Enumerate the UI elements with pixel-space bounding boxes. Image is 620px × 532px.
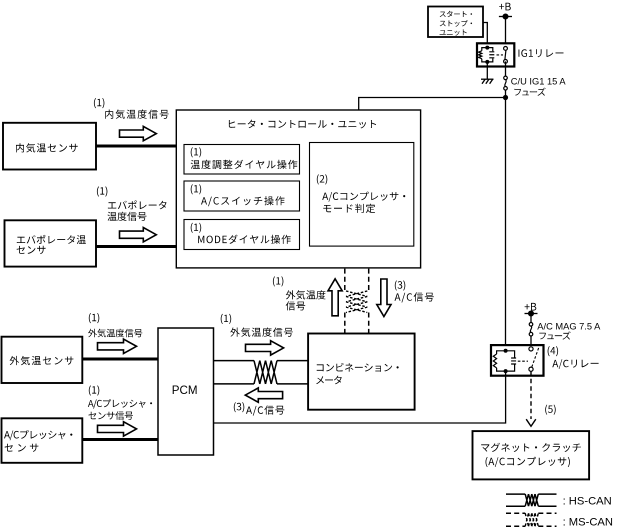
junction fused IG1 supply — [503, 95, 508, 100]
label 外気温度信号 (MS-CAN) — [286, 290, 326, 310]
wire MS-CAN line A upper — [344, 269, 346, 291]
box MODEダイヤル操作 — [184, 220, 300, 250]
wire +B to A/C MAG fuse — [530, 314, 532, 323]
twisted pair HS-CAN bus — [254, 361, 277, 384]
relay A/C contact — [529, 347, 533, 372]
box 温度調整ダイヤル操作 — [184, 145, 300, 175]
box マグネット・クラッチ — [473, 431, 590, 479]
box コンビネーション・メータ — [308, 334, 415, 410]
label IG1 relay — [519, 49, 564, 57]
label 内気温度信号 — [105, 110, 169, 119]
label A/Cプレッシャ・センサ text — [4, 430, 72, 452]
label start-stop unit text — [440, 11, 473, 36]
wire MS-CAN line A lower — [344, 313, 346, 334]
arrow A/Cプレッシャ・センサ信号 — [98, 422, 137, 436]
label +B (IG1) — [499, 3, 511, 11]
label (3) A/C信号 number (bus) — [234, 402, 245, 412]
label エバポレータ温センサ text — [17, 235, 86, 254]
wire IG1 coil to ground — [486, 62, 488, 79]
wire fuse to A/C relay contact — [530, 336, 532, 347]
relay IG1 dashed actuator link — [497, 54, 504, 56]
svg-text:A/C MAG 7.5 A: A/C MAG 7.5 A — [537, 322, 601, 332]
box A/Cスイッチ操作 — [184, 181, 300, 211]
wire fused supply to heater control unit — [359, 98, 506, 111]
label (5) number — [545, 405, 556, 415]
label A/C MAG 7.5 A fuse — [537, 322, 601, 340]
wire MS-CAN line B upper — [368, 269, 370, 291]
wire 外気温センサ to PCM (thick) — [82, 358, 158, 361]
wire エバポレータ温センサ to heater unit (thick) — [96, 245, 176, 248]
label +B (A/C) — [525, 303, 537, 311]
fuse C/U IG1 15A symbol — [504, 76, 508, 90]
svg-text:: MS-CAN: : MS-CAN — [563, 517, 613, 529]
relay A/C coil — [493, 349, 516, 372]
wire IG1 contact to fuse — [505, 61, 507, 76]
box ヒータ・コントロール・ユニット — [176, 110, 420, 268]
relay IG1 outline — [477, 43, 514, 66]
label (4) A/Cリレー — [548, 346, 599, 369]
arrow 外気温度信号 (left) — [98, 339, 137, 353]
node +B battery terminal (A/C) — [525, 311, 538, 316]
wire A/Cプレッシャ・センサ to PCM (thick) — [82, 438, 158, 441]
label (2) A/Cコンプレッサ・モード判定 — [317, 174, 406, 213]
label (1) 外気温度信号 number (left) — [89, 313, 100, 323]
label A/C信号 (MS-CAN) — [395, 292, 434, 302]
label ヒータ・コントロール・ユニット — [229, 120, 376, 129]
fuse A/C MAG 7.5A symbol — [529, 323, 533, 337]
label コンビネーション・メータ text — [316, 363, 399, 384]
label C/U IG1 15 A fuse — [511, 76, 567, 96]
wire HS-CAN upper line — [214, 360, 255, 362]
label 内気温センサ — [16, 143, 78, 152]
label (1) エバポレータ温度信号 number — [97, 186, 108, 196]
wire +B to IG1 relay contact — [505, 17, 507, 47]
box 内気温センサ — [3, 123, 96, 170]
label 外気温度信号 (bus) — [230, 328, 293, 337]
arrow A/C信号 down (MS-CAN) — [377, 279, 391, 317]
label (1) 外気温度信号 number (MS-CAN) — [273, 276, 284, 286]
legend twisted pair HS-CAN — [525, 494, 538, 506]
arrowhead (5) open chevron — [526, 419, 536, 426]
label (1) A/Cスイッチ操作 — [191, 184, 285, 206]
label (1) MODEダイヤル操作 — [191, 223, 291, 244]
legend MS-CAN upper line — [506, 512, 525, 514]
arrow 外気温度信号 (bus) — [246, 341, 284, 355]
arrow 内気温度信号 — [120, 126, 157, 140]
box PCM — [158, 328, 214, 455]
label A/Cプレッシャ・センサ信号 — [88, 399, 152, 420]
wire start-stop unit to IG1 relay coil — [483, 23, 487, 48]
legend HS-CAN upper line right — [538, 493, 556, 495]
label マグネット・クラッチ (A/Cコンプレッサ) text — [481, 443, 581, 467]
svg-text:: HS-CAN: : HS-CAN — [563, 495, 612, 507]
relay A/C dashed actuator arm — [518, 348, 539, 368]
node +B battery terminal (IG1) — [499, 14, 512, 19]
legend HS-CAN lower line — [506, 505, 525, 507]
wire A/C relay coil to PCM — [214, 371, 506, 423]
wire MS-CAN line B lower — [368, 313, 370, 334]
label (1) 外気温度信号 number (bus) — [221, 314, 232, 324]
wire A/C relay contact to magnet clutch (dashed) — [530, 371, 532, 419]
label (1) A/Cプレッシャ・センサ信号 number — [89, 385, 100, 395]
legend MS-CAN lower line right — [538, 525, 556, 527]
legend twisted pair MS-CAN — [525, 513, 538, 526]
relay IG1 coil — [479, 46, 495, 63]
label (1) 温度調整ダイヤル操作 — [191, 147, 298, 169]
wire fuse to junction to A/C relay coil — [505, 90, 507, 351]
ground IG1 relay — [481, 79, 494, 84]
svg-text:C/U IG1 15 A: C/U IG1 15 A — [511, 76, 567, 86]
box エバポレータ温センサ — [5, 220, 97, 266]
legend HS-CAN lower line right — [538, 505, 556, 507]
label (3) A/C信号 number (MS-CAN) — [395, 280, 406, 290]
box 外気温センサ — [2, 337, 83, 383]
arrow 外気温度信号 up (MS-CAN) — [328, 279, 342, 316]
svg-text:PCM: PCM — [172, 384, 198, 397]
label A/C信号 (bus) — [246, 405, 284, 415]
relay A/C outline — [491, 345, 544, 376]
relay IG1 contact — [504, 47, 508, 64]
label エバポレータ温度信号 — [108, 200, 167, 221]
box A/Cコンプレッサ・モード判定 — [310, 143, 414, 247]
label 外気温センサ — [10, 356, 74, 365]
arrow A/C信号 (bus) — [245, 388, 282, 402]
wire HS-CAN upper line right — [277, 360, 308, 362]
wire HS-CAN lower line right — [277, 383, 308, 385]
wire 内気温センサ to heater unit (thick) — [96, 145, 176, 148]
label 外気温度信号 (left) — [88, 329, 142, 338]
arrow エバポレータ温度信号 — [120, 228, 157, 242]
wire HS-CAN lower line — [214, 383, 255, 385]
label (1) 内気温度信号 number — [94, 98, 105, 108]
legend HS-CAN upper line — [506, 493, 525, 495]
twisted pair MS-CAN — [346, 291, 367, 313]
box start-stop unit — [428, 7, 483, 38]
box A/Cプレッシャ・センサ — [2, 418, 83, 463]
legend MS-CAN lower line — [506, 525, 525, 527]
legend MS-CAN upper line right — [538, 512, 556, 514]
